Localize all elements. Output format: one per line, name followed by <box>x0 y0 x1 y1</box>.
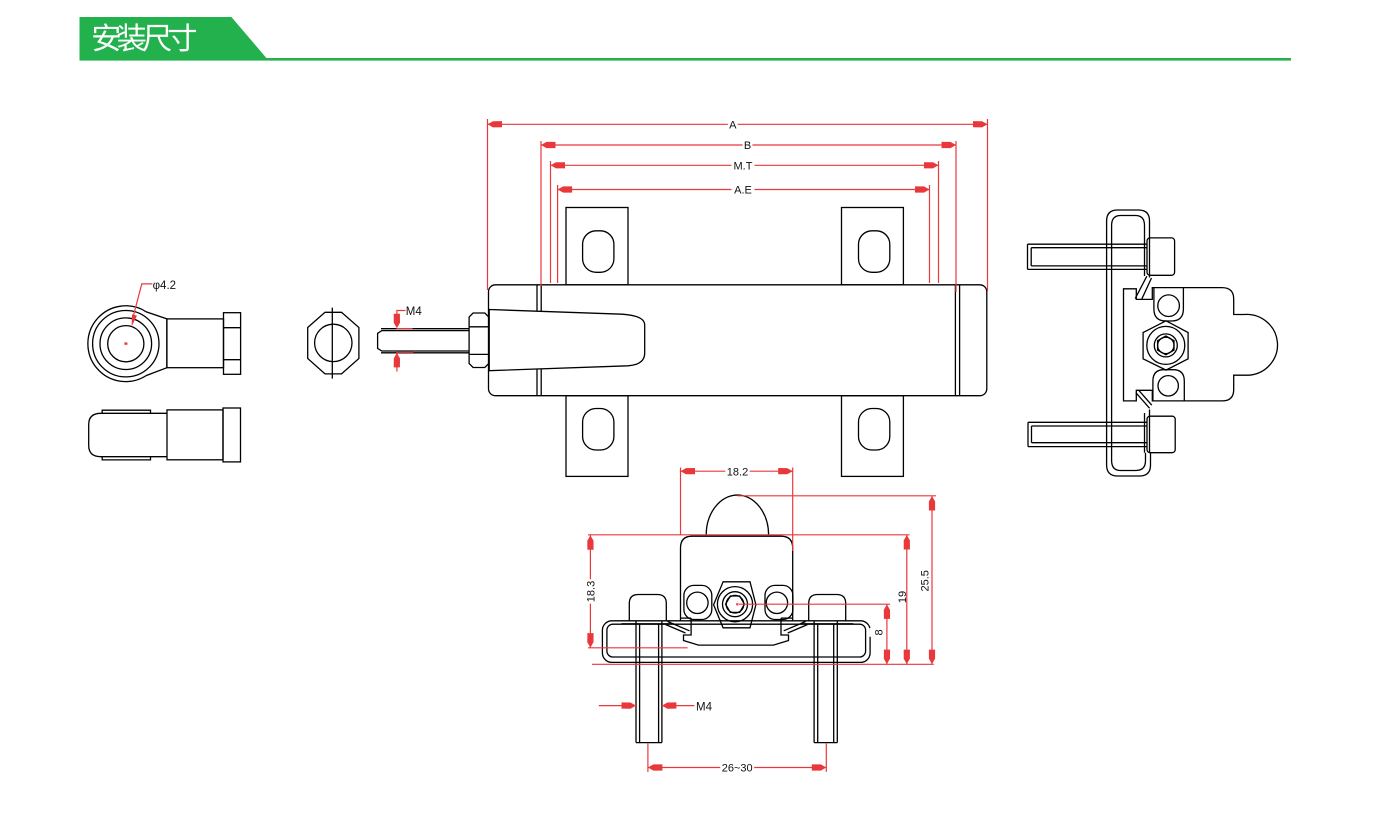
green title banner <box>80 17 268 59</box>
label A <box>728 120 738 130</box>
dim B extension line right <box>955 141 957 292</box>
side view: rail right edge segments through bottom bolt <box>1144 413 1146 453</box>
front view: right screw pocket <box>765 585 793 619</box>
hex jam nut front view: octagon outline <box>308 312 359 374</box>
label 26~30 <box>720 763 754 773</box>
dim 26~30 line <box>648 767 826 769</box>
front view: left bolt washer line <box>622 623 674 625</box>
svg-text:18.2: 18.2 <box>727 466 748 478</box>
svg-text:B: B <box>744 140 751 152</box>
arrow 18.2 left <box>681 468 696 474</box>
svg-text:A.E: A.E <box>734 185 752 197</box>
svg-text:φ4.2: φ4.2 <box>153 280 176 292</box>
dim A.E extension line left <box>557 185 559 283</box>
dim 8 line <box>886 604 888 664</box>
arrow A left <box>488 121 503 127</box>
front view: nut circle inner <box>726 595 744 613</box>
M4 rod thread crest line bottom <box>381 352 469 354</box>
dim M.T extension line right <box>938 161 940 283</box>
rod-end bearing front view: housing outline <box>88 306 167 382</box>
arrow M4 pointing right <box>622 702 637 708</box>
side view: bottom clamp bolt shaft <box>1028 421 1147 423</box>
side view: center hex nut outer hexagon <box>1143 321 1188 370</box>
ref line nut center (8) <box>739 603 890 605</box>
front view: left screw pocket <box>684 585 712 619</box>
front view: nut circle outer <box>717 587 752 622</box>
M4 threaded rod body <box>378 331 470 351</box>
side view: bottom bolt shaft left end <box>1027 422 1029 446</box>
side view: upper screw pocket <box>1154 288 1184 321</box>
dim A extension line left <box>487 119 489 290</box>
front view: ledge under right ear <box>781 617 793 619</box>
slot hole bottom-right <box>859 409 890 451</box>
side view: rail right edge segments through top bolt <box>1144 238 1146 276</box>
mounting foot top-right <box>842 208 904 285</box>
dim M4 screw leader left <box>599 705 636 707</box>
front view: nut circle inner <box>726 596 745 612</box>
rod hex collar <box>469 313 489 368</box>
rod-end center dot <box>124 342 127 344</box>
ref line dome top (25.5) <box>737 495 936 497</box>
label 19 (rotated) <box>893 590 909 604</box>
arrow 26~30 left <box>648 764 663 770</box>
svg-text:26~30: 26~30 <box>722 763 753 775</box>
front view: center hex nut hexagon <box>714 582 756 628</box>
rod hex collar flat line lower <box>469 353 489 355</box>
rod hex collar flat line upper <box>469 326 489 328</box>
M4 rod thread crest line top <box>381 328 469 330</box>
front view: nut circle middle <box>723 592 748 617</box>
rod-end side view: end cap <box>223 408 241 462</box>
front view: right clip tab <box>784 622 806 631</box>
arrow 25.5 bottom <box>929 650 935 665</box>
M4 rod dim leader elbow <box>397 311 406 323</box>
dim A extension line right <box>987 119 989 291</box>
front view: ledge under left ear <box>681 617 692 619</box>
dim 26~30 extension left <box>647 744 649 772</box>
M4 rod dim arrow down <box>394 314 400 329</box>
dim B line <box>541 144 956 146</box>
arrow 18.2 right <box>778 468 793 474</box>
rod-end side view: bottom tab <box>102 457 150 460</box>
dim 26~30 extension right <box>825 744 827 772</box>
side view: top bolt head <box>1147 238 1175 275</box>
green underline <box>80 58 1292 61</box>
body left cap line 2 <box>540 285 542 396</box>
body right cap line 2 <box>959 285 961 396</box>
front view: right bolt head <box>809 595 846 621</box>
front view: right screw circle <box>766 592 787 613</box>
rod-end end cap flat line upper <box>224 327 241 329</box>
front view: sensor dome <box>706 495 768 535</box>
ref line body top (19 / 18.3) <box>588 534 910 536</box>
mounting foot bottom-left <box>566 396 628 477</box>
arrow 19 bottom <box>904 650 910 665</box>
side view: bottom bolt head <box>1147 416 1175 453</box>
phi4.2 leader line <box>134 284 153 315</box>
front view: left screw circle <box>687 592 708 613</box>
arrow B right <box>942 142 957 148</box>
side view: center nut inner circle <box>1158 337 1174 353</box>
arrow 8 bottom <box>884 650 890 665</box>
rod-end bearing front view: neck rectangle <box>167 319 224 368</box>
front view: right bolt washer line <box>801 623 853 625</box>
dim M.T line <box>551 164 939 166</box>
slot hole top-right <box>859 231 890 272</box>
arrow 26~30 right <box>812 764 827 770</box>
label M.T <box>732 161 755 171</box>
dim M.T extension line left <box>550 161 552 283</box>
mounting foot bottom-right <box>842 396 904 477</box>
dim 25.5 line <box>931 496 933 665</box>
side view: DIN rail clip outer profile <box>1107 210 1151 476</box>
arrow A right <box>973 121 988 127</box>
arrow 18.3 top <box>587 535 593 550</box>
side view: lower clip hook <box>1136 393 1150 409</box>
dim 18.3 line <box>589 535 591 648</box>
ref line 18.3 bottom <box>588 647 688 649</box>
label 8 (rotated) <box>869 628 885 637</box>
rod-end bearing front view: ball bore circle (4.2mm hole) <box>108 326 144 362</box>
svg-text:M4: M4 <box>406 306 423 318</box>
banner text 安装尺寸 <box>93 23 196 51</box>
side view: center nut inner hexagon <box>1158 336 1174 355</box>
dim 18.2 line <box>681 470 793 472</box>
side view: lower screw pocket <box>1153 370 1184 401</box>
rod-end bearing front view: middle ring circle <box>100 318 152 370</box>
arrow 8 top <box>884 604 890 619</box>
arrow 18.3 bottom <box>587 633 593 648</box>
arrow M.T right <box>924 162 939 168</box>
front view: left bolt head <box>629 595 666 621</box>
mounting foot top-left <box>566 208 628 285</box>
dim B extension line left <box>540 141 542 286</box>
M4 rod dim line below <box>396 353 398 372</box>
svg-text:19: 19 <box>897 591 909 603</box>
M4 rod dim tick top <box>396 328 412 330</box>
front view: DIN rail bar inner <box>607 624 866 657</box>
side view: sensor block body with dome <box>1124 288 1278 401</box>
front view: DIN rail bar outer <box>602 621 870 663</box>
side view: top clamp bolt shaft <box>1028 243 1148 245</box>
ref line rail bottom (8/19/25.5) <box>592 663 934 665</box>
rod-end bearing side view: left lobe <box>89 413 167 456</box>
svg-text:M4: M4 <box>696 701 713 713</box>
dim A.E extension line right <box>929 185 931 283</box>
side view: upper clip hook <box>1135 276 1147 298</box>
dim M4 screw leader right <box>662 705 695 707</box>
svg-text:M.T: M.T <box>734 161 753 173</box>
svg-text:A: A <box>729 120 737 132</box>
rod-end side view: top tab <box>102 410 150 413</box>
arrow M.T left <box>551 162 566 168</box>
side view: upper screw circle <box>1158 295 1180 317</box>
dim A.E line <box>558 189 930 191</box>
front view: sensor body <box>681 536 793 621</box>
label B <box>743 140 753 150</box>
rod-end bearing front view: threaded end cap <box>224 313 241 375</box>
hex jam nut: thread circle <box>315 324 352 361</box>
svg-text:25.5: 25.5 <box>920 570 932 591</box>
side view: top bolt shaft left end <box>1027 244 1029 269</box>
arrow A.E right <box>915 186 930 192</box>
M4 rod dim tick bottom <box>396 351 413 353</box>
front view: right M4 screw shaft <box>813 621 815 743</box>
side view: lower screw circle <box>1158 376 1178 396</box>
dim 18.2 extension right <box>792 468 794 552</box>
body right cap line 1 <box>954 285 956 396</box>
slider wedge inside body <box>489 310 645 371</box>
rod-end side view: mid rectangle <box>167 410 223 460</box>
M4 rod dim arrow up <box>394 353 400 368</box>
rod-end end cap flat line lower <box>224 359 241 361</box>
svg-text:8: 8 <box>873 629 885 635</box>
front view: foot outline <box>684 618 789 645</box>
arrow 25.5 top <box>929 496 935 511</box>
body left cap line 1 <box>536 285 538 396</box>
front view: left M4 screw shaft <box>635 621 637 743</box>
slot hole top-left <box>583 231 614 272</box>
svg-text:18.3: 18.3 <box>585 581 597 602</box>
front view: left clip tab <box>668 622 690 631</box>
sensor main body tube <box>489 285 987 396</box>
dim A line <box>488 123 988 125</box>
arrow M4 pointing left <box>662 702 677 708</box>
arrow A.E left <box>558 186 573 192</box>
label 18.3 (rotated) <box>581 579 597 603</box>
arrow B left <box>541 142 556 148</box>
label A.E <box>732 185 755 195</box>
rod-end bearing front view: outer ring circle <box>93 311 159 377</box>
side view: center nut circle <box>1147 326 1185 364</box>
dim 18.2 extension left <box>680 468 682 536</box>
side view: DIN rail clip inner profile <box>1112 216 1146 471</box>
side view: center nut ring circle <box>1154 334 1177 357</box>
label 25.5 (rotated) <box>916 569 932 593</box>
label 18.2 <box>725 466 749 476</box>
dim 19 line <box>906 535 908 665</box>
phi4.2 leader arrowhead <box>132 314 137 326</box>
hex jam nut: vertical centerline <box>331 308 333 379</box>
arrow 19 top <box>904 535 910 550</box>
slot hole bottom-left <box>583 409 614 451</box>
